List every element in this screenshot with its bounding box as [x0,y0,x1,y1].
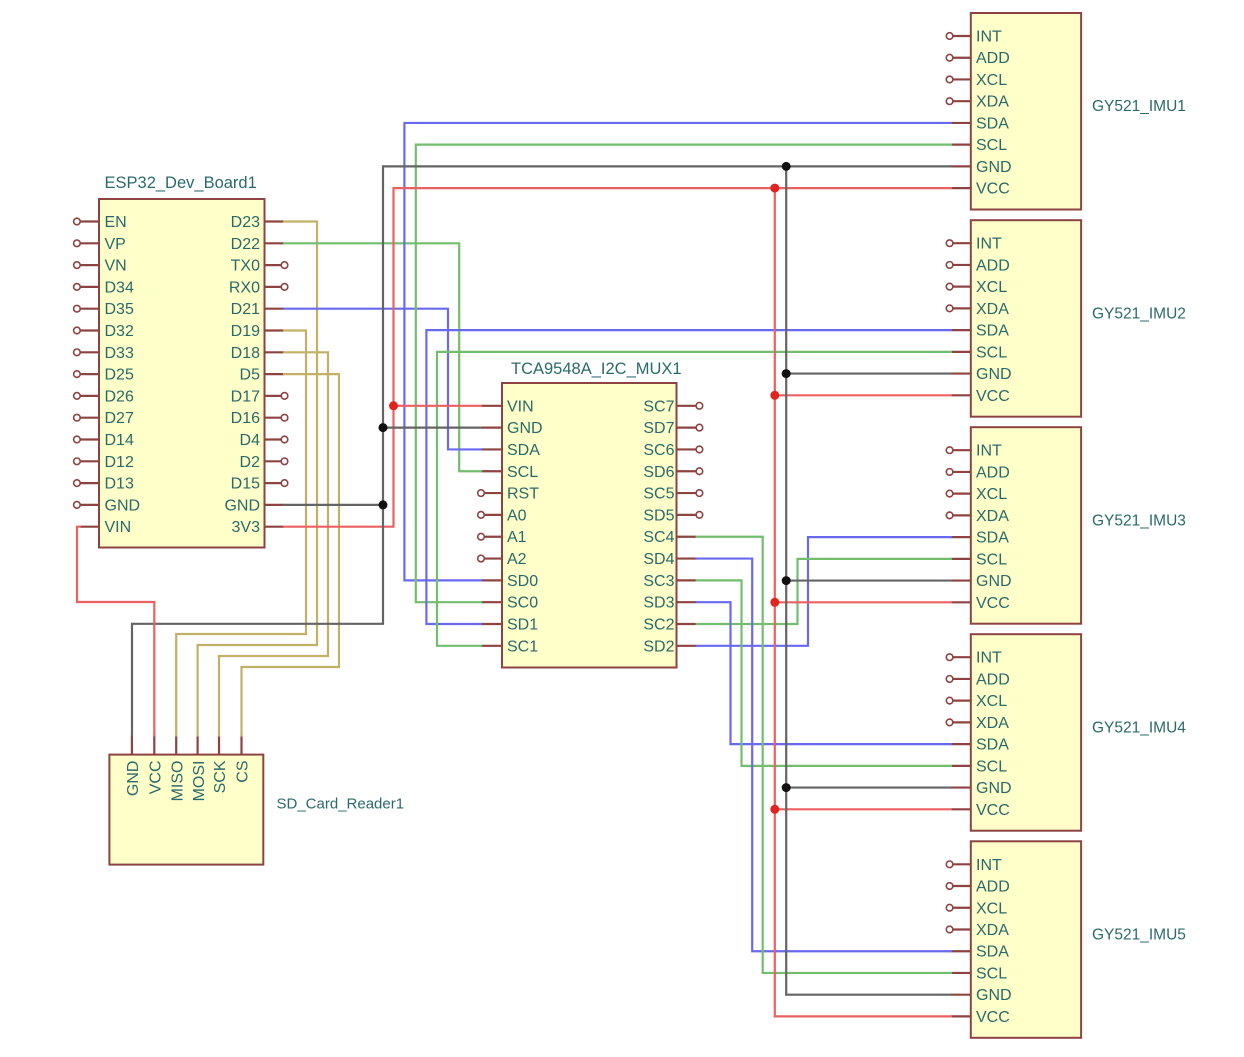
pin SDA (GY521_IMU2) [951,323,1009,340]
svg-text:ESP32_Dev_Board1: ESP32_Dev_Board1 [105,174,257,192]
svg-text:GY521_IMU2: GY521_IMU2 [1092,305,1186,322]
pin XDA (GY521_IMU3) [946,508,1009,525]
pin XCL (GY521_IMU4) [946,693,1007,710]
pin SD7 (MUX right) [643,420,702,437]
pin SD1 (MUX left) [481,617,538,634]
pin D5 (ESP32 right) [240,367,284,384]
svg-text:VCC: VCC [976,181,1010,198]
pin ADD (GY521_IMU1) [946,50,1009,67]
svg-text:ADD: ADD [976,257,1010,274]
svg-text:GY521_IMU3: GY521_IMU3 [1092,512,1186,529]
junction VCC at IMU3 VCC row [770,598,779,607]
svg-text:EN: EN [105,214,127,231]
pin SD4 (MUX right) [643,551,696,568]
svg-text:CS: CS [235,761,252,783]
svg-text:ADD: ADD [976,50,1010,67]
pin D15 (ESP32 right) [231,476,288,493]
label ESP32_Dev_Board1 [105,174,257,192]
svg-text:SC4: SC4 [643,529,674,546]
wire IMU2 SCL to MUX SC1 (green) [437,352,951,646]
svg-text:XCL: XCL [976,279,1007,296]
pin SD6 (MUX right) [643,464,702,481]
svg-text:SD1: SD1 [507,617,538,634]
pin VCC (GY521_IMU5) [951,1009,1010,1026]
pin VCC (GY521_IMU4) [951,802,1010,819]
svg-text:SC7: SC7 [643,398,674,415]
svg-text:RST: RST [507,486,539,503]
svg-text:GND: GND [976,780,1012,797]
wire GND bus right vertical to IMU5 GND (black) [786,166,951,994]
svg-text:SD3: SD3 [643,595,674,612]
junction VCC at IMU4 VCC row [770,805,779,814]
pin SDA (GY521_IMU5) [951,944,1009,961]
svg-text:D16: D16 [231,410,260,427]
pin SC7 (MUX right) [643,398,702,415]
svg-text:TX0: TX0 [231,258,260,275]
svg-text:SCL: SCL [976,137,1007,154]
pin XCL (GY521_IMU5) [946,900,1007,917]
pin GND (GY521_IMU3) [951,573,1012,590]
svg-text:GND: GND [125,761,142,797]
pin D33 (ESP32 left) [74,345,134,362]
pin VCC (GY521_IMU2) [951,388,1010,405]
pin D21 (ESP32 right) [231,301,284,318]
pin INT (GY521_IMU4) [946,650,1002,667]
svg-text:D15: D15 [231,476,260,493]
pin D16 (ESP32 right) [231,410,288,427]
pin VCC (SD card top) [148,736,165,795]
svg-text:D5: D5 [240,367,261,384]
wire ESP32 VIN to SD VCC (red) [77,527,154,736]
pin SDA (GY521_IMU4) [951,737,1009,754]
pin EN (ESP32 left) [74,214,127,231]
junction GND at IMU2 GND row [782,369,791,378]
pin SCL (GY521_IMU5) [951,965,1007,982]
IMU sensor GY521_IMU5 [971,841,1081,1038]
svg-text:D13: D13 [105,476,134,493]
wire GND branch to MUX GND (black) [383,427,481,429]
pin RX0 (ESP32 right) [229,279,288,296]
wire D19 to SD MISO (olive) [176,331,306,736]
svg-text:XCL: XCL [976,72,1007,89]
wire VCC branch to MUX VIN (red) [394,405,482,407]
svg-text:VCC: VCC [976,388,1010,405]
svg-text:SCL: SCL [976,551,1007,568]
svg-text:D25: D25 [105,367,134,384]
wire VCC bus right vertical to IMU5 VCC (red) [775,188,951,1016]
pin VP (ESP32 left) [74,236,126,253]
svg-text:VN: VN [105,258,127,275]
svg-text:A1: A1 [507,529,527,546]
svg-text:INT: INT [976,236,1002,253]
label TCA9548A_I2C_MUX1 [511,360,682,378]
pin CS (SD card top) [235,736,252,783]
pin INT (GY521_IMU5) [946,857,1002,874]
svg-text:SCL: SCL [976,758,1007,775]
pin GND (MUX left) [481,420,543,437]
svg-text:TCA9548A_I2C_MUX1: TCA9548A_I2C_MUX1 [511,360,682,378]
pin SCK (SD card top) [212,736,229,794]
pin D19 (ESP32 right) [231,323,284,340]
pin A1 (MUX left) [478,529,527,546]
junction GND at IMU1 GND row [782,162,791,171]
pin SC5 (MUX right) [643,486,702,503]
wire GND branch to IMU4 GND (black) [786,786,951,788]
svg-text:D14: D14 [105,432,134,449]
pin SDA (MUX left) [481,442,540,459]
label GY521_IMU2 [1092,305,1186,322]
pin GND (ESP32 left) [74,497,140,514]
svg-text:SCL: SCL [976,965,1007,982]
svg-text:D22: D22 [231,236,260,253]
svg-text:GND: GND [976,366,1012,383]
wire IMU1 SCL to MUX SC0 (green) [416,145,951,603]
pin SCL (GY521_IMU2) [951,344,1007,361]
pin D4 (ESP32 right) [240,432,288,449]
svg-text:D19: D19 [231,323,260,340]
pin INT (GY521_IMU3) [946,443,1002,460]
wire VCC branch to IMU4 VCC (red) [775,808,951,810]
pin SC3 (MUX right) [643,573,696,590]
wire VCC branch to IMU2 VCC (red) [775,394,951,396]
pin ADD (GY521_IMU3) [946,464,1009,481]
pin SD5 (MUX right) [643,507,702,524]
svg-text:SD2: SD2 [643,638,674,655]
pin GND (ESP32 right) [224,497,284,514]
pin SCL (GY521_IMU3) [951,551,1007,568]
svg-text:SDA: SDA [976,115,1009,132]
pin D32 (ESP32 left) [74,323,134,340]
svg-text:VCC: VCC [148,761,165,795]
wire D21 to MUX SDA (blue) [284,309,481,450]
svg-text:VCC: VCC [976,802,1010,819]
junction VCC at IMU1 VCC row [770,184,779,193]
wire GND branch to IMU3 GND (black) [786,579,951,581]
svg-text:RX0: RX0 [229,279,260,296]
pin RST (MUX left) [478,486,540,503]
svg-text:XCL: XCL [976,693,1007,710]
svg-text:MOSI: MOSI [191,761,208,802]
pin GND (SD card top) [125,736,142,797]
junction GND at MUX GND row [379,423,388,432]
svg-text:SD7: SD7 [643,420,674,437]
pin INT (GY521_IMU1) [946,29,1002,46]
svg-text:D21: D21 [231,301,260,318]
pin ADD (GY521_IMU4) [946,671,1009,688]
svg-text:VIN: VIN [507,398,534,415]
wire GND branch to ESP32 GND (black) [284,504,383,506]
svg-text:D4: D4 [240,432,261,449]
wire MUX SD2 to IMU3 SDA (blue) [697,537,951,646]
pin MISO (SD card top) [169,736,186,802]
svg-text:SC5: SC5 [643,486,674,503]
pin XDA (GY521_IMU5) [946,922,1009,939]
pin XCL (GY521_IMU3) [946,486,1007,503]
svg-text:GND: GND [976,159,1012,176]
svg-text:XDA: XDA [976,94,1009,111]
wire D5 to SD CS (olive) [242,374,340,735]
svg-text:XDA: XDA [976,508,1009,525]
svg-text:D33: D33 [105,345,134,362]
wire D18 to SD SCK (olive) [219,352,328,735]
pin D34 (ESP32 left) [74,279,134,296]
wire VCC bus: IMU1 VCC left down to ESP32 3V3 (red) [284,188,951,527]
junction VCC at MUX VIN row [389,401,398,410]
svg-text:SDA: SDA [507,442,540,459]
svg-text:GY521_IMU1: GY521_IMU1 [1092,98,1186,115]
svg-text:XDA: XDA [976,301,1009,318]
svg-text:SCL: SCL [976,344,1007,361]
svg-text:D18: D18 [231,345,260,362]
IMU sensor GY521_IMU1 [971,13,1081,210]
SD card reader SD_Card_Reader1 [109,755,263,865]
svg-text:GY521_IMU4: GY521_IMU4 [1092,719,1186,736]
svg-text:SCL: SCL [507,464,538,481]
wire VCC branch to IMU3 VCC (red) [775,601,951,603]
pin A0 (MUX left) [478,507,527,524]
pin GND (GY521_IMU4) [951,780,1012,797]
IMU sensor GY521_IMU2 [971,220,1081,417]
pin SCL (MUX left) [481,464,538,481]
pin SC4 (MUX right) [643,529,696,546]
label GY521_IMU4 [1092,719,1186,736]
ESP32 dev board ESP32_Dev_Board1 [99,199,265,548]
svg-text:INT: INT [976,443,1002,460]
svg-text:A0: A0 [507,507,527,524]
svg-text:INT: INT [976,650,1002,667]
pin SDA (GY521_IMU1) [951,115,1009,132]
pin VIN (MUX left) [481,398,534,415]
label GY521_IMU1 [1092,98,1186,115]
pin D23 (ESP32 right) [231,214,284,231]
label SD_Card_Reader1 [277,796,405,813]
label GY521_IMU5 [1092,927,1186,944]
svg-text:XDA: XDA [976,922,1009,939]
svg-text:GND: GND [976,987,1012,1004]
pin GND (GY521_IMU2) [951,366,1012,383]
pin D18 (ESP32 right) [231,345,284,362]
svg-text:D27: D27 [105,410,134,427]
pin 3V3 (ESP32 right) [232,519,284,536]
wire D22 to MUX SCL (green) [284,243,481,471]
pin SD2 (MUX right) [643,638,696,655]
pin D22 (ESP32 right) [231,236,284,253]
svg-text:SC1: SC1 [507,638,538,655]
svg-text:SC0: SC0 [507,595,538,612]
pin VN (ESP32 left) [74,258,127,275]
wire MUX SC2 to IMU3 SCL (green) [697,559,951,624]
pin XDA (GY521_IMU4) [946,715,1009,732]
pin D25 (ESP32 left) [74,367,134,384]
pin SD0 (MUX left) [481,573,538,590]
pin VIN (ESP32 left) [80,519,131,536]
pin INT (GY521_IMU2) [946,236,1002,253]
svg-text:VCC: VCC [976,595,1010,612]
pin VCC (GY521_IMU3) [951,595,1010,612]
svg-text:ADD: ADD [976,671,1010,688]
svg-text:XCL: XCL [976,900,1007,917]
svg-text:INT: INT [976,29,1002,46]
wire MUX SC3 to IMU4 SCL (green) [697,580,951,765]
svg-text:SC3: SC3 [643,573,674,590]
svg-text:GND: GND [224,497,260,514]
pin GND (GY521_IMU1) [951,159,1012,176]
pin XCL (GY521_IMU2) [946,279,1007,296]
I2C multiplexer TCA9548A_I2C_MUX1 [502,383,677,668]
pin SC2 (MUX right) [643,617,696,634]
svg-text:D23: D23 [231,214,260,231]
pin D17 (ESP32 right) [231,388,288,405]
wire IMU2 SDA to MUX SD1 (blue) [426,330,951,624]
svg-text:MISO: MISO [169,761,186,802]
svg-text:3V3: 3V3 [232,519,261,536]
pin XCL (GY521_IMU1) [946,72,1007,89]
pin SCL (GY521_IMU4) [951,758,1007,775]
pin XDA (GY521_IMU1) [946,94,1009,111]
svg-text:D17: D17 [231,388,260,405]
svg-text:GND: GND [507,420,543,437]
svg-text:GND: GND [105,497,141,514]
svg-text:VIN: VIN [105,519,132,536]
svg-text:SD5: SD5 [643,507,674,524]
svg-text:SD_Card_Reader1: SD_Card_Reader1 [277,796,405,813]
IMU sensor GY521_IMU4 [971,634,1081,831]
svg-text:SCK: SCK [212,760,229,793]
pin SC6 (MUX right) [643,442,702,459]
svg-text:XDA: XDA [976,715,1009,732]
svg-text:SD6: SD6 [643,464,674,481]
svg-text:D34: D34 [105,279,134,296]
svg-text:SD4: SD4 [643,551,674,568]
svg-text:XCL: XCL [976,486,1007,503]
svg-text:A2: A2 [507,551,527,568]
wire IMU1 SDA to MUX SD0 (blue) [404,123,951,580]
pin D12 (ESP32 left) [74,454,134,471]
pin SDA (GY521_IMU3) [951,530,1009,547]
pin XDA (GY521_IMU2) [946,301,1009,318]
pin VCC (GY521_IMU1) [951,181,1010,198]
svg-text:SC2: SC2 [643,617,674,634]
svg-text:SDA: SDA [976,944,1009,961]
IMU sensor GY521_IMU3 [971,427,1081,624]
pin GND (GY521_IMU5) [951,987,1012,1004]
svg-text:SDA: SDA [976,530,1009,547]
pin SC1 (MUX left) [481,638,538,655]
pin D2 (ESP32 right) [240,454,288,471]
svg-text:D12: D12 [105,454,134,471]
pin ADD (GY521_IMU2) [946,257,1009,274]
pin D26 (ESP32 left) [74,388,134,405]
svg-text:D32: D32 [105,323,134,340]
pin D27 (ESP32 left) [74,410,134,427]
svg-text:SC6: SC6 [643,442,674,459]
pin A2 (MUX left) [478,551,527,568]
wire GND bus: IMU1 GND left down to SD GND (black) [132,166,951,735]
pin MOSI (SD card top) [191,736,208,802]
svg-text:VCC: VCC [976,1009,1010,1026]
wire MUX SC4 to IMU5 SCL (green) [697,537,951,973]
svg-text:ADD: ADD [976,879,1010,896]
svg-text:GY521_IMU5: GY521_IMU5 [1092,927,1186,944]
svg-text:SDA: SDA [976,323,1009,340]
svg-text:D35: D35 [105,301,134,318]
pin ADD (GY521_IMU5) [946,879,1009,896]
pin D13 (ESP32 left) [74,476,134,493]
pin SC0 (MUX left) [481,595,538,612]
svg-text:D2: D2 [240,454,261,471]
svg-text:D26: D26 [105,388,134,405]
svg-text:VP: VP [105,236,126,253]
pin SCL (GY521_IMU1) [951,137,1007,154]
junction VCC at IMU2 VCC row [770,391,779,400]
wire GND branch to IMU2 GND (black) [786,372,951,374]
junction GND at IMU4 GND row [782,783,791,792]
junction GND at ESP32 GND row [379,500,388,509]
svg-text:ADD: ADD [976,464,1010,481]
svg-text:GND: GND [976,573,1012,590]
label GY521_IMU3 [1092,512,1186,529]
pin D14 (ESP32 left) [74,432,134,449]
pin D35 (ESP32 left) [74,301,134,318]
svg-text:SD0: SD0 [507,573,538,590]
svg-text:INT: INT [976,857,1002,874]
wire MUX SD3 to IMU4 SDA (blue) [697,602,951,744]
junction GND at IMU3 GND row [782,576,791,585]
wire MUX SD4 to IMU5 SDA (blue) [697,559,951,952]
svg-text:SDA: SDA [976,737,1009,754]
pin SD3 (MUX right) [643,595,696,612]
wire D23 to SD MOSI (olive) [198,222,317,736]
pin TX0 (ESP32 right) [231,258,288,275]
